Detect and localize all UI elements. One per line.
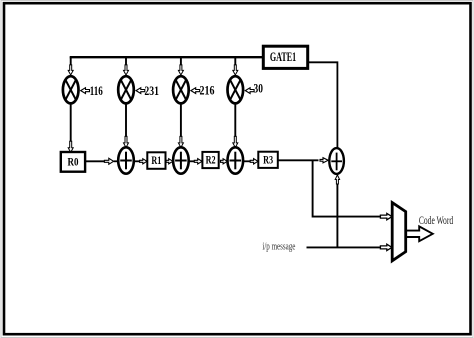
register R1 [147,152,165,169]
multiplier M4 (GF multiplier x30) [228,76,244,103]
wire: multiplier M2 output down [124,104,129,147]
multiplier M3 (GF multiplier x216) [173,76,189,103]
wire: adder A3 to R3 [243,159,258,164]
wire: multiplier M4 output down [233,104,238,147]
wire: bus drop to multiplier M3 [178,57,183,75]
wire: bus drop to multiplier M1 [68,57,73,75]
svg-text:231: 231 [144,83,159,98]
wire: i/p message to MUX input 2 [307,244,393,250]
svg-text:216: 216 [200,83,215,98]
wire: parity branch to MUX input 1 [313,161,392,220]
register R3 [258,152,278,168]
wire: R3 to final adder A4 [278,158,328,163]
value label 231 for M2 [136,83,159,98]
svg-text:R1: R1 [151,155,161,167]
multiplier M2 (GF multiplier x231) [118,76,134,103]
svg-text:i/p message: i/p message [262,241,295,252]
wire: bus drop to multiplier M2 [124,57,129,75]
wire: R2 to adder A3 [221,159,228,164]
wire: final adder output up to GATE1 [308,62,338,148]
adder A2 (XOR) [173,147,189,173]
svg-text:GATE1: GATE1 [270,49,296,64]
wire: R1 to adder A2 [166,159,173,164]
wire: i/p message up to final adder A4 [335,175,339,248]
register R0 [61,152,85,172]
wire: R0 to adder A1 [85,158,118,164]
value label 30 for M4 [245,80,263,95]
wire: code word output arrow [406,226,433,241]
wire: adder A1 to R1 [134,159,147,164]
wire: adder A2 to R2 [189,159,202,164]
wire: bus drop to multiplier M4 [233,57,238,75]
mux (output multiplexer) [392,203,406,261]
wire: feedback bus from GATE1 to multipliers [70,56,264,58]
adder A3 (XOR) [228,147,244,173]
svg-text:Code Word: Code Word [419,213,453,227]
register R2 [202,152,218,168]
svg-text:R0: R0 [68,156,79,168]
svg-text:R3: R3 [263,154,273,166]
multiplier M1 (GF multiplier x116) [63,76,79,103]
gate GATE1 [263,46,307,68]
svg-text:30: 30 [254,80,263,95]
svg-text:R2: R2 [206,155,216,167]
wire: multiplier M3 output down [178,104,183,147]
value label 216 for M3 [191,83,215,98]
value label 116 for M1 [81,83,103,98]
svg-text:116: 116 [90,83,103,98]
adder A1 (XOR) [118,147,134,173]
adder A4 (final XOR) [329,148,344,174]
wire: multiplier M1 output down [68,104,73,152]
